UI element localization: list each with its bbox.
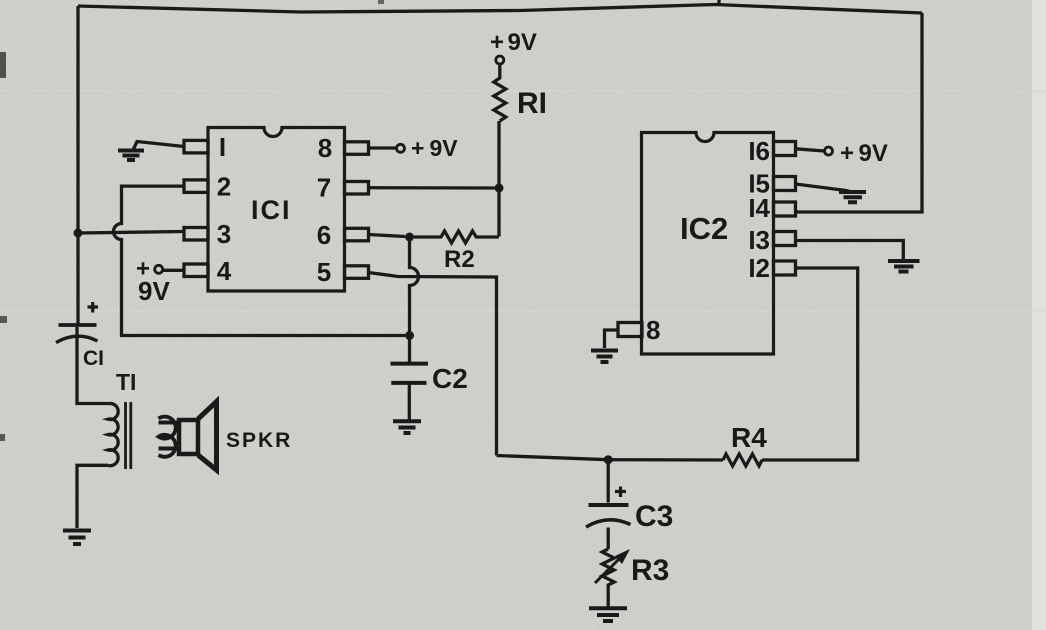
terminal circle at IC1 pin 8 (397, 144, 405, 152)
wire: R1 through pin7 node down to R2 (497, 121, 500, 237)
svg-text:CI: CI (83, 347, 104, 370)
svg-text:I4: I4 (748, 193, 770, 223)
terminal circle at R1 top (496, 56, 504, 64)
svg-text:5: 5 (317, 257, 331, 287)
svg-text:8: 8 (318, 133, 332, 163)
IC1 pin 6 lead (345, 228, 369, 241)
IC2 pin 14 lead (774, 202, 796, 216)
transformer T1 core (126, 402, 131, 469)
svg-text:R4: R4 (731, 422, 767, 453)
wire: IC1 pin 1 to ground (134, 142, 185, 150)
wire: IC2 pin 12 down to R4 (762, 268, 858, 460)
IC1 pin 8 lead (345, 142, 369, 155)
wire: bottom rail (497, 456, 724, 461)
svg-text:9V: 9V (138, 276, 170, 306)
capacitor C3 polarized (615, 487, 626, 498)
node: junction C3 / R3 branch (604, 455, 613, 464)
wire: IC1 pin 7 to R1 node (369, 186, 495, 190)
svg-text:C3: C3 (635, 500, 673, 533)
wire: IC2 pin 15 to ground (796, 184, 852, 192)
svg-text:TI: TI (116, 369, 136, 395)
svg-text:I: I (219, 132, 226, 162)
capacitor C1 polarized (88, 302, 99, 313)
svg-text:SPKR: SPKR (226, 429, 292, 452)
resistor R4 (723, 454, 762, 466)
svg-text:+: + (490, 29, 504, 56)
ground at IC2 pin 13 (888, 261, 920, 272)
svg-text:8: 8 (646, 315, 660, 345)
IC2 pin 15 lead (774, 177, 796, 191)
wire: IC2 pin 16 supply stub (796, 149, 825, 151)
wire: IC1 pin 3 to left rail with hop (78, 232, 184, 234)
wire: left speaker rail vertical (76, 6, 79, 325)
IC1 pin 1 lead (184, 140, 208, 153)
svg-text:ICI: ICI (251, 195, 292, 225)
svg-text:R2: R2 (444, 246, 475, 273)
ground at IC2 pin 15 (839, 192, 866, 202)
IC2 pin 13 lead (774, 232, 796, 246)
node: junction pin2 wire / C2 (405, 331, 414, 340)
svg-text:3: 3 (217, 219, 231, 249)
wire: node down to C3 (607, 460, 610, 503)
wire: IC1 pin 8 supply stub (369, 146, 397, 149)
wire: node down to C2 (410, 237, 419, 364)
IC1 pin 2 lead (184, 180, 208, 193)
wire: IC2 pin 8 to ground (605, 330, 619, 348)
wire: C1 to transformer primary (77, 327, 108, 404)
capacitor C2 (391, 362, 429, 366)
svg-text:+: + (840, 140, 854, 167)
wire: stub artifact on top run (717, 0, 720, 6)
variable resistor R3 (602, 549, 614, 607)
wire: top feedback run (78, 5, 922, 14)
svg-text:6: 6 (317, 220, 331, 250)
wire: primary bottom return to ground (77, 465, 108, 528)
svg-text:2: 2 (217, 172, 231, 202)
svg-text:RI: RI (517, 87, 547, 120)
transformer T1 secondary winding (159, 417, 176, 457)
IC1 pin 4 lead (184, 264, 208, 277)
node: junction pin6 / R2 / C2 (405, 233, 414, 242)
IC1 pin 7 lead (345, 182, 369, 195)
svg-text:+: + (411, 135, 424, 161)
node: junction pin7 / R1 / R2 (495, 184, 504, 193)
IC1 pin 3 lead (184, 228, 208, 241)
resistor R2 (414, 231, 499, 243)
node: junction left rail / IC1 pin 3 (74, 229, 83, 238)
ground below C2 (393, 421, 421, 433)
speaker SPKR (179, 420, 198, 454)
svg-text:4: 4 (217, 256, 232, 286)
wire: right drop to IC2 pin 14 (796, 13, 923, 212)
svg-text:9V: 9V (430, 135, 459, 161)
wire: IC1 pin 6 to node (369, 235, 406, 237)
IC2 pin 16 lead (774, 142, 796, 156)
svg-text:R3: R3 (631, 554, 669, 587)
svg-text:9V: 9V (508, 29, 537, 56)
resistor R1 (494, 64, 506, 121)
wire: IC1 pin 2 drop to C2 node (114, 186, 406, 335)
svg-text:I6: I6 (748, 136, 770, 166)
IC1 pin 5 lead (345, 266, 369, 279)
terminal circle at IC2 pin 16 (825, 147, 833, 155)
wire: IC1 pin 5 to timing rail (369, 273, 497, 456)
svg-text:C2: C2 (432, 363, 468, 394)
ground below R3 (589, 608, 627, 621)
svg-text:I2: I2 (748, 253, 770, 283)
wire: IC1 pin 4 supply stub (164, 269, 185, 272)
svg-text:I3: I3 (748, 225, 770, 255)
ground at IC1 pin 1 (118, 151, 144, 161)
svg-text:9V: 9V (859, 140, 888, 167)
terminal circle at IC1 pin 4 (155, 265, 163, 273)
svg-text:7: 7 (317, 173, 331, 203)
ground at IC2 pin 8 (591, 351, 618, 363)
IC2 pin 8 lead (618, 323, 642, 337)
svg-text:IC2: IC2 (680, 211, 728, 246)
IC2 pin 12 lead (774, 261, 796, 275)
IC2 body (642, 133, 774, 355)
IC1 body (208, 128, 345, 292)
wire: IC2 pin 13 to ground (796, 241, 904, 260)
transformer T1 primary winding (108, 403, 118, 465)
ground below T1 (63, 531, 91, 545)
